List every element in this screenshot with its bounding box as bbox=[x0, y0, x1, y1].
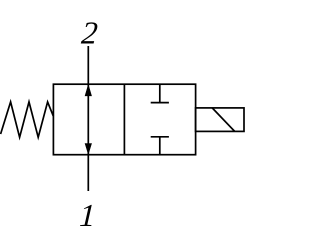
arrowhead up bbox=[85, 85, 91, 96]
flow path wire bbox=[87, 84, 89, 155]
blocked port bottom bar bbox=[151, 136, 169, 138]
svg-text:2: 2 bbox=[80, 15, 99, 51]
solenoid box bbox=[196, 108, 244, 131]
position divider wire bbox=[123, 84, 125, 155]
port 1 wire bbox=[87, 155, 89, 191]
blocked port top stem bbox=[159, 84, 161, 102]
arrowhead down bbox=[85, 144, 91, 155]
blocked port bottom stem bbox=[159, 137, 161, 155]
solenoid diagonal bbox=[212, 108, 235, 131]
blocked port top bar bbox=[151, 102, 169, 104]
valve body box bbox=[53, 84, 195, 155]
svg-text:1: 1 bbox=[79, 197, 97, 233]
port 2 wire bbox=[87, 46, 89, 84]
spring return bbox=[1, 102, 54, 137]
